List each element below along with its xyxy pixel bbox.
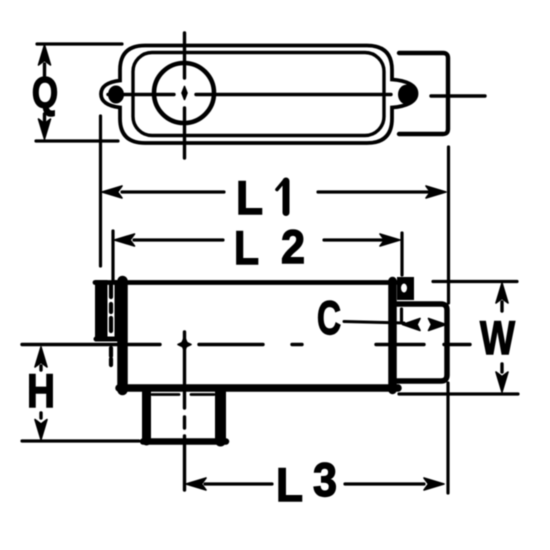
top view: right cover screw (solid) <box>398 85 416 105</box>
dimension C: leader line <box>344 322 404 324</box>
svg-text:L: L <box>276 458 303 511</box>
dimension W: bottom extension line <box>399 392 518 395</box>
top view: cover outer outline with integrated screw ear bumps <box>101 46 417 144</box>
side view: bottom hub left wall <box>142 391 151 441</box>
dimension H: up arrow <box>39 366 42 370</box>
dimension L3: dimension line with arrows <box>205 482 424 485</box>
svg-text:2: 2 <box>281 220 305 273</box>
top view: hub opening circle <box>154 63 214 123</box>
side view: bottom hub centerline diamond <box>182 337 188 351</box>
dimension L2: dimension line with arrows <box>134 238 382 241</box>
svg-text:L: L <box>234 221 259 274</box>
dimension L2: right extension line <box>400 233 403 275</box>
dimension L1: left extension line <box>99 116 102 266</box>
dimension W: up arrow <box>500 302 503 311</box>
side view: cover screw lug (top right) <box>397 277 414 300</box>
dimension L2: left extension line <box>111 231 114 281</box>
dimension H: bottom extension line <box>22 439 139 442</box>
top view: body hub end outline (right) <box>399 53 448 134</box>
svg-text:C: C <box>317 291 341 344</box>
dimension W: down arrow <box>500 364 503 372</box>
svg-text:W: W <box>480 311 515 364</box>
dimension Q: down arrow <box>43 114 46 122</box>
side view: left hub dashed thread line <box>109 285 113 365</box>
side view: right hub outline <box>397 304 447 381</box>
dimension H: down arrow <box>39 413 42 418</box>
dimension Q: bottom extension line <box>36 139 118 142</box>
side view: body bottom edge (thick) <box>119 384 398 392</box>
top view: horizontal centerline <box>108 95 485 97</box>
svg-text:H: H <box>27 364 55 417</box>
side view: left hub right wall sliver <box>115 280 119 342</box>
side view: bottom hub bottom edge <box>143 438 226 445</box>
side view: body left edge (thick) <box>117 281 128 390</box>
dimension L1: dimension line with arrows <box>122 190 428 193</box>
side view: bottom hub vertical centerline <box>183 332 186 490</box>
top view: vertical centerline through circle <box>183 33 186 158</box>
svg-text:Q: Q <box>32 69 58 118</box>
svg-text:3: 3 <box>313 453 337 506</box>
vertical line from top view right edge down through side view <box>447 147 450 303</box>
side view: body right edge (thick) <box>388 281 397 390</box>
top view: left cover screw (solid) <box>108 86 124 104</box>
svg-text:L: L <box>236 171 263 224</box>
side view: left hub bottom edge <box>96 337 117 342</box>
side view: bottom hub shoulder line <box>152 393 214 396</box>
side view: left hub solid wall <box>95 280 108 342</box>
dimension C: left arrow <box>403 319 421 331</box>
dimension Q: up arrow <box>43 64 46 76</box>
side view: bottom hub right wall <box>215 391 226 441</box>
side view: body top edge <box>95 280 396 285</box>
side view: lug hole <box>401 284 407 293</box>
dimension C: right arrow <box>429 319 447 331</box>
dimension L3: right extension line <box>446 383 449 493</box>
side view: right hub inner face tick <box>400 309 403 321</box>
top view: cover inner outline <box>133 53 384 136</box>
top view: circle center mark <box>182 87 187 100</box>
side view: horizontal centerline <box>22 343 470 346</box>
dimension W: top extension line <box>433 280 517 283</box>
digit 1 drawn as path <box>283 181 290 213</box>
dimension Q: top extension line <box>37 42 122 45</box>
side view: centerline diamond at bottom hub axis <box>178 342 191 348</box>
